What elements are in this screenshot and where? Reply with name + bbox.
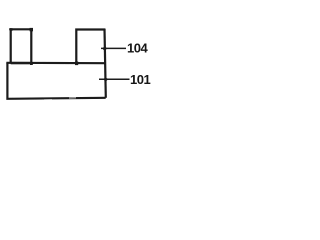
svg-text:101: 101 — [130, 72, 150, 87]
svg-text:104: 104 — [127, 41, 148, 56]
